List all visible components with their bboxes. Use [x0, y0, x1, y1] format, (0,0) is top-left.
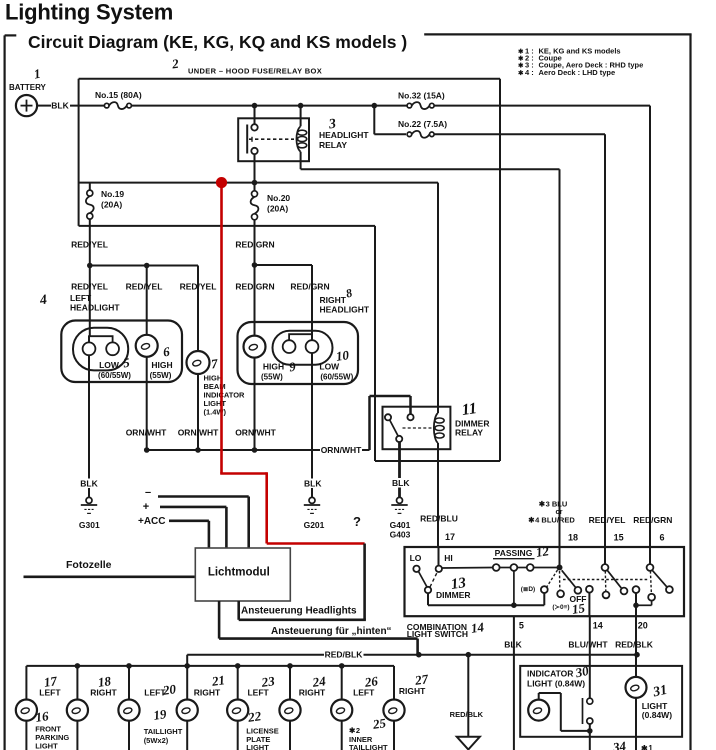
svg-text:(55W): (55W): [150, 371, 172, 380]
svg-text:DIMMER: DIMMER: [436, 590, 470, 600]
svg-text:LIGHT: LIGHT: [35, 742, 58, 750]
svg-text:No.15 (80A): No.15 (80A): [95, 90, 142, 100]
svg-text:RED/YEL: RED/YEL: [589, 515, 626, 525]
svg-text:15: 15: [571, 600, 586, 617]
svg-text:BLK: BLK: [304, 479, 322, 489]
svg-text:ORN/WHT: ORN/WHT: [235, 428, 276, 438]
svg-text:1: 1: [33, 66, 42, 82]
svg-text:RED/BLU: RED/BLU: [420, 514, 458, 524]
svg-text:(0.84W): (0.84W): [642, 710, 672, 720]
svg-text:RED/GRN: RED/GRN: [290, 282, 329, 292]
svg-text:RIGHT: RIGHT: [90, 688, 117, 698]
svg-text:21: 21: [210, 672, 226, 689]
svg-text:34: 34: [611, 738, 627, 750]
svg-text:HIGH: HIGH: [151, 360, 172, 370]
svg-text:INDICATOR: INDICATOR: [527, 669, 573, 679]
svg-text:G201: G201: [304, 520, 325, 530]
svg-text:RED/GRN: RED/GRN: [235, 240, 274, 250]
svg-text:ORN/WHT: ORN/WHT: [178, 428, 219, 438]
svg-text:RED/YEL: RED/YEL: [180, 282, 217, 292]
svg-text:G403: G403: [390, 530, 411, 540]
svg-text:ORN/WHT: ORN/WHT: [321, 445, 362, 455]
svg-text:BLU/WHT: BLU/WHT: [568, 640, 608, 650]
svg-text:Fotozelle: Fotozelle: [66, 559, 112, 571]
svg-text:+ACC: +ACC: [138, 516, 166, 527]
svg-text:✱: ✱: [518, 62, 524, 70]
svg-text:5: 5: [519, 621, 524, 631]
svg-text:19: 19: [152, 706, 167, 723]
svg-text:16: 16: [34, 708, 49, 725]
svg-text:ORN/WHT: ORN/WHT: [126, 428, 167, 438]
svg-text:Ansteuerung Headlights: Ansteuerung Headlights: [241, 606, 357, 617]
svg-text:22: 22: [246, 708, 262, 725]
svg-text:✱: ✱: [518, 69, 524, 77]
svg-text:✱ 1: ✱ 1: [641, 744, 653, 750]
svg-text:6: 6: [162, 344, 171, 360]
svg-text:31: 31: [651, 683, 669, 701]
svg-text:(60/55W): (60/55W): [98, 371, 131, 380]
svg-text:7: 7: [210, 356, 219, 372]
svg-text:HEADLIGHT: HEADLIGHT: [320, 305, 370, 315]
svg-text:LEFT: LEFT: [247, 688, 269, 698]
svg-text:(5Wx2): (5Wx2): [144, 736, 169, 745]
svg-text:RED/BLK: RED/BLK: [450, 710, 484, 719]
svg-text:✱ 2: ✱ 2: [349, 726, 360, 735]
svg-text:25: 25: [371, 715, 387, 732]
svg-text:(1.4W): (1.4W): [204, 407, 227, 416]
svg-text:✱: ✱: [518, 47, 524, 55]
svg-text:LEFT: LEFT: [353, 688, 375, 698]
svg-text:RIGHT: RIGHT: [194, 688, 221, 698]
svg-text:(20A): (20A): [267, 204, 288, 214]
svg-text:(60/55W): (60/55W): [320, 372, 353, 381]
svg-text:RELAY: RELAY: [319, 140, 347, 150]
svg-text:LIGHT: LIGHT: [246, 743, 269, 750]
svg-text:RIGHT: RIGHT: [299, 688, 326, 698]
svg-text:BLK: BLK: [51, 101, 69, 111]
svg-text:RED/YEL: RED/YEL: [71, 240, 108, 250]
svg-text:Circuit Diagram (KE, KG, KQ an: Circuit Diagram (KE, KG, KQ and KS model…: [28, 32, 407, 52]
svg-text:(20A): (20A): [101, 200, 122, 210]
svg-text:✱ 3 BLU: ✱ 3 BLU: [539, 500, 568, 509]
svg-text:RED/GRN: RED/GRN: [633, 515, 672, 525]
svg-text:RIGHT: RIGHT: [399, 686, 426, 696]
svg-text:2: 2: [170, 56, 180, 72]
svg-text:TAILLIGHT: TAILLIGHT: [349, 743, 388, 750]
svg-text:No.19: No.19: [101, 189, 124, 199]
svg-text:BLK: BLK: [392, 478, 410, 488]
svg-text:No.22 (7.5A): No.22 (7.5A): [398, 119, 447, 129]
svg-text:9: 9: [288, 359, 297, 375]
svg-text:Lighting System: Lighting System: [5, 0, 173, 25]
svg-text:RELAY: RELAY: [455, 428, 483, 438]
svg-text:RED/YEL: RED/YEL: [126, 282, 163, 292]
svg-text:Aero Deck : LHD type: Aero Deck : LHD type: [539, 68, 616, 77]
svg-text:G401: G401: [390, 520, 411, 530]
svg-text:BATTERY: BATTERY: [9, 83, 47, 92]
svg-text:LEFT: LEFT: [39, 688, 61, 698]
svg-text:LIGHT SWITCH: LIGHT SWITCH: [407, 629, 468, 639]
svg-text:HEADLIGHT: HEADLIGHT: [70, 303, 120, 313]
svg-text:PASSING: PASSING: [495, 548, 533, 558]
svg-text:RED/YEL: RED/YEL: [71, 282, 108, 292]
svg-text:20: 20: [638, 621, 648, 631]
svg-text:(55W): (55W): [261, 372, 283, 381]
svg-text:5: 5: [122, 355, 131, 371]
svg-text:LOW: LOW: [99, 360, 120, 370]
svg-text:No.20: No.20: [267, 193, 290, 203]
svg-text:?: ?: [353, 514, 361, 529]
svg-text:20: 20: [161, 681, 177, 698]
svg-text:TAILLIGHT: TAILLIGHT: [144, 727, 183, 736]
svg-text:14: 14: [470, 619, 485, 636]
svg-text:BLK: BLK: [80, 479, 98, 489]
svg-text:12: 12: [535, 543, 550, 560]
svg-text:RED/GRN: RED/GRN: [235, 282, 274, 292]
svg-text:Ansteuerung für „hinten“: Ansteuerung für „hinten“: [271, 626, 392, 637]
svg-text:RED/BLK: RED/BLK: [615, 640, 654, 650]
svg-text:4 :: 4 :: [525, 68, 534, 77]
svg-text:–: –: [145, 487, 151, 499]
svg-text:14: 14: [593, 621, 603, 631]
svg-text:10: 10: [335, 347, 350, 364]
svg-text:(≣D): (≣D): [521, 583, 535, 593]
svg-text:HEADLIGHT: HEADLIGHT: [319, 130, 369, 140]
svg-text:LEFT: LEFT: [70, 293, 92, 303]
svg-text:(≻0≡): (≻0≡): [552, 603, 569, 611]
svg-text:17: 17: [445, 532, 455, 542]
svg-text:+: +: [143, 501, 149, 513]
svg-text:✱ 4 BLU/RED: ✱ 4 BLU/RED: [528, 516, 575, 525]
svg-text:HI: HI: [444, 553, 453, 563]
svg-text:RED/BLK: RED/BLK: [325, 649, 364, 659]
svg-text:11: 11: [461, 400, 478, 419]
svg-text:6: 6: [659, 533, 664, 543]
svg-text:15: 15: [614, 533, 624, 543]
svg-text:RIGHT: RIGHT: [320, 295, 347, 305]
svg-text:4: 4: [38, 293, 48, 309]
svg-text:LIGHT (0.84W): LIGHT (0.84W): [527, 679, 585, 689]
svg-text:HIGH: HIGH: [263, 362, 284, 372]
svg-text:No.32 (15A): No.32 (15A): [398, 91, 445, 101]
svg-text:LO: LO: [410, 553, 422, 563]
svg-text:✱: ✱: [518, 55, 524, 63]
svg-text:UNDER – HOOD FUSE/RELAY BOX: UNDER – HOOD FUSE/RELAY BOX: [188, 67, 322, 76]
svg-text:BLK: BLK: [504, 640, 522, 650]
svg-text:G301: G301: [79, 520, 100, 530]
svg-text:Lichtmodul: Lichtmodul: [208, 567, 270, 579]
svg-text:18: 18: [568, 533, 578, 543]
